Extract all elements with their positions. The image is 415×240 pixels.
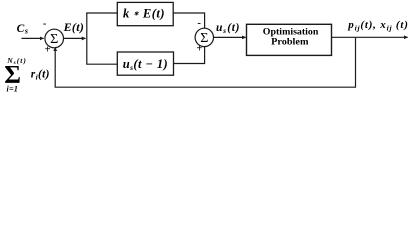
svg-text:us(t − 1): us(t − 1)	[123, 57, 168, 72]
wire branch to us(t-1) block	[86, 63, 117, 65]
svg-text:-: -	[197, 18, 201, 29]
svg-text:-: -	[43, 18, 47, 29]
wire E(t) from S1 to branch node	[64, 37, 86, 39]
wire feedback from output branch down, left and up into S1 bottom	[55, 37, 355, 87]
svg-text:Σ: Σ	[200, 31, 208, 46]
svg-text:ri(t): ri(t)	[31, 69, 50, 82]
wire output from Optimisation block to right edge	[332, 36, 408, 38]
wire Cs input into summing junction S1	[22, 37, 44, 39]
svg-text:+: +	[45, 45, 51, 56]
summing junction S1	[45, 29, 64, 48]
block us(t-1)	[117, 52, 173, 75]
summing junction S2	[195, 28, 213, 46]
wire us(t) from S2 to Optimisation block	[213, 36, 245, 38]
svg-text:Σ: Σ	[50, 32, 58, 47]
svg-text:k ∗ E(t): k ∗ E(t)	[123, 7, 165, 21]
wire branch vertical	[86, 13, 88, 64]
svg-text:Problem: Problem	[271, 37, 308, 48]
wire us(t-1) output to S2 bottom	[174, 47, 205, 64]
wire branch to k*E(t) block	[86, 12, 117, 14]
svg-text:us(t): us(t)	[216, 22, 240, 35]
svg-text:i=1: i=1	[7, 84, 19, 93]
block Optimisation Problem	[247, 24, 332, 55]
wire k*E(t) output to S2 top	[173, 13, 204, 28]
block k*E(t)	[117, 2, 173, 25]
svg-text:E(t): E(t)	[63, 20, 85, 34]
